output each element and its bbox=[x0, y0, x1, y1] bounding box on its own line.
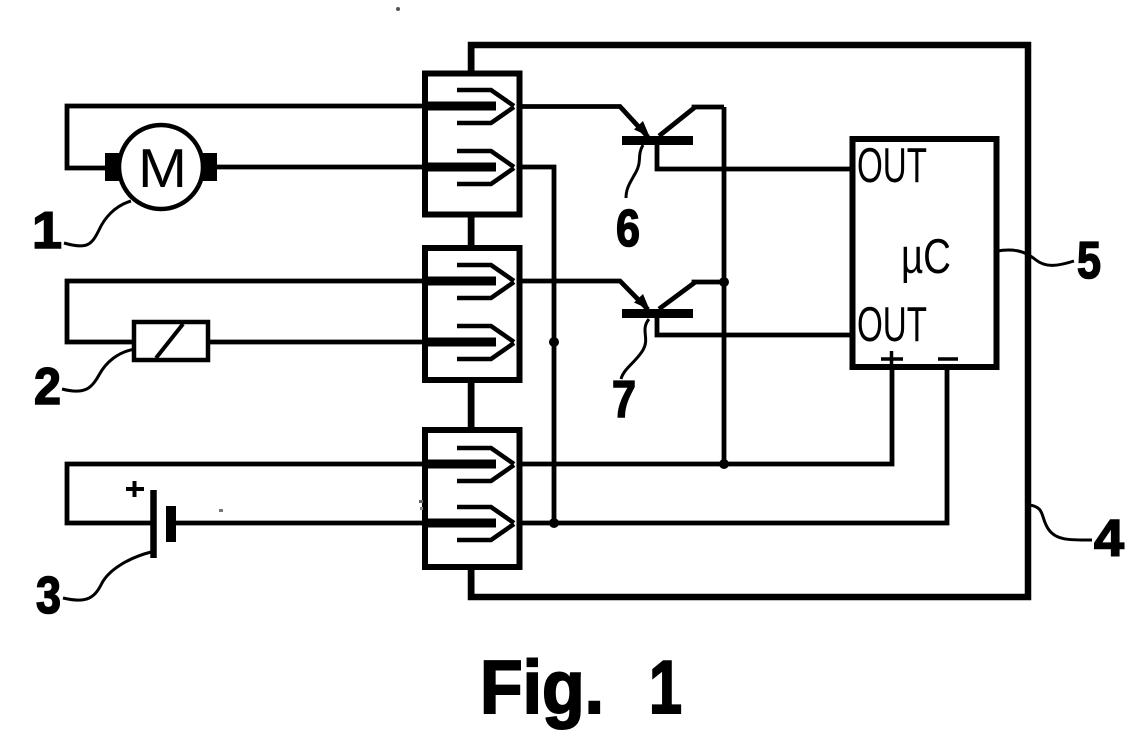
svg-text:4: 4 bbox=[1094, 510, 1124, 568]
svg-text:OUT: OUT bbox=[857, 298, 927, 352]
svg-text:6: 6 bbox=[616, 200, 640, 258]
svg-text:1: 1 bbox=[649, 645, 682, 729]
svg-text:5: 5 bbox=[1077, 232, 1101, 290]
svg-text:Fig.: Fig. bbox=[480, 645, 604, 729]
svg-text:OUT: OUT bbox=[857, 139, 927, 193]
svg-text:M: M bbox=[138, 137, 187, 199]
svg-text:3: 3 bbox=[36, 567, 61, 625]
svg-text:7: 7 bbox=[612, 371, 636, 429]
svg-text:2: 2 bbox=[34, 358, 61, 416]
svg-text:1: 1 bbox=[32, 202, 62, 260]
svg-text:µC: µC bbox=[901, 230, 951, 284]
